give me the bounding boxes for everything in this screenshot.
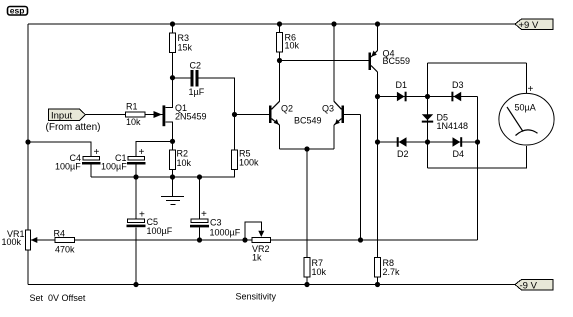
svg-text:1N4148: 1N4148: [437, 121, 469, 131]
svg-text:100k: 100k: [239, 158, 259, 168]
svg-text:esp: esp: [10, 6, 25, 16]
svg-text:+: +: [94, 147, 100, 158]
svg-text:-9 V: -9 V: [520, 280, 538, 291]
svg-text:+9 V: +9 V: [519, 20, 539, 31]
svg-text:D2: D2: [397, 149, 409, 159]
svg-text:Sensitivity: Sensitivity: [236, 292, 277, 302]
svg-text:C2: C2: [190, 61, 202, 71]
svg-text:1000µF: 1000µF: [210, 227, 241, 237]
svg-text:1µF: 1µF: [189, 87, 205, 97]
svg-text:1k: 1k: [252, 253, 262, 263]
svg-text:R1: R1: [126, 102, 138, 112]
svg-text:C3: C3: [210, 218, 222, 228]
svg-text:10k: 10k: [126, 117, 141, 127]
svg-text:+: +: [201, 209, 207, 220]
svg-text:100µF: 100µF: [101, 162, 127, 172]
svg-text:15k: 15k: [178, 43, 193, 53]
svg-text:(From atten): (From atten): [46, 122, 101, 133]
svg-text:D1: D1: [396, 80, 408, 90]
svg-text:10k: 10k: [285, 41, 300, 51]
svg-text:R3: R3: [178, 33, 190, 43]
svg-text:+: +: [139, 147, 145, 158]
svg-text:100k: 100k: [2, 237, 22, 247]
svg-text:D4: D4: [453, 149, 465, 159]
svg-text:2.7k: 2.7k: [383, 267, 401, 277]
svg-text:D3: D3: [452, 80, 464, 90]
svg-text:470k: 470k: [55, 245, 75, 255]
svg-text:BC559: BC559: [383, 56, 411, 66]
svg-text:100µF: 100µF: [55, 162, 81, 172]
svg-text:BC549: BC549: [294, 116, 322, 126]
svg-text:Q2: Q2: [281, 104, 293, 114]
svg-text:Set 0V Offset: Set 0V Offset: [30, 293, 86, 303]
svg-text:Q3: Q3: [322, 104, 334, 114]
svg-text:10k: 10k: [312, 267, 327, 277]
svg-text:10k: 10k: [177, 158, 192, 168]
svg-text:Input: Input: [51, 110, 72, 121]
svg-text:+: +: [139, 210, 145, 221]
svg-text:100µF: 100µF: [147, 226, 173, 236]
svg-text:+: +: [528, 84, 534, 95]
svg-text:R4: R4: [54, 229, 66, 239]
svg-text:50µA: 50µA: [515, 103, 536, 113]
svg-text:2N5459: 2N5459: [175, 112, 207, 122]
svg-text:R2: R2: [177, 149, 189, 159]
